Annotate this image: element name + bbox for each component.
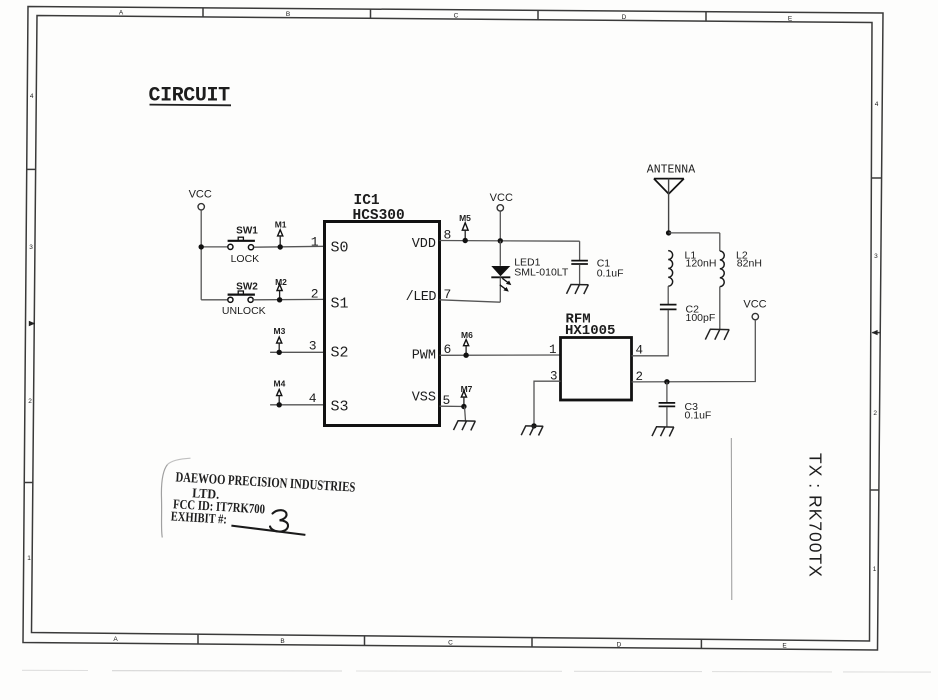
fold mark line xyxy=(730,438,733,600)
svg-text:0.1uF: 0.1uF xyxy=(685,409,712,421)
LED LED1 xyxy=(491,241,569,302)
svg-text:VCC: VCC xyxy=(743,298,766,310)
svg-text:6: 6 xyxy=(444,342,452,357)
LED emission arrows xyxy=(502,278,509,283)
svg-text:/LED: /LED xyxy=(406,290,437,305)
capacitor C3 xyxy=(659,382,712,427)
test point M5 xyxy=(459,213,471,243)
svg-text:B: B xyxy=(280,638,284,645)
wire VCC to SW2 xyxy=(201,299,227,301)
svg-text:HX1005: HX1005 xyxy=(565,323,615,339)
svg-text:C: C xyxy=(454,13,459,20)
svg-text:82nH: 82nH xyxy=(737,258,762,270)
svg-text:3: 3 xyxy=(874,253,878,260)
centering arrow left xyxy=(29,321,35,327)
svg-text:B: B xyxy=(286,11,290,18)
stamp text FCC exhibit xyxy=(170,470,355,534)
wire to pin S2 xyxy=(270,351,324,353)
svg-text:EXHIBIT #:: EXHIBIT #: xyxy=(170,508,227,526)
wire M7 to ground xyxy=(465,407,466,421)
stamp label edge xyxy=(168,458,191,464)
wire L2 to ground xyxy=(719,287,721,330)
svg-text:M3: M3 xyxy=(273,326,285,336)
svg-text:M2: M2 xyxy=(275,277,287,287)
wire PWM to RFM pin1 xyxy=(440,354,561,356)
capacitor C2 xyxy=(660,303,715,324)
ground under L2 xyxy=(705,329,729,340)
svg-text:1: 1 xyxy=(311,234,319,249)
svg-text:1: 1 xyxy=(27,555,31,562)
test point M4 xyxy=(273,379,285,408)
inductor L1 xyxy=(668,250,716,286)
svg-text:M7: M7 xyxy=(461,384,473,394)
svg-text:TX : RK700TX: TX : RK700TX xyxy=(806,453,826,578)
wire VCC to SW1 xyxy=(201,246,227,248)
svg-text:2: 2 xyxy=(28,398,32,405)
svg-text:C: C xyxy=(448,640,453,647)
svg-text:0.1uF: 0.1uF xyxy=(597,267,624,279)
svg-text:S3: S3 xyxy=(331,399,349,416)
test point M7 xyxy=(461,384,473,409)
ground under C1 xyxy=(567,285,589,295)
svg-text:S0: S0 xyxy=(331,239,349,256)
wire antenna junction to L2 xyxy=(669,232,720,234)
svg-text:4: 4 xyxy=(30,93,34,100)
wire /LED to LED xyxy=(440,300,501,302)
test point M1 xyxy=(275,220,287,250)
svg-text:A: A xyxy=(113,636,118,643)
junction pin2/C3 xyxy=(664,379,669,384)
svg-text:VSS: VSS xyxy=(412,391,436,406)
wire SW1 to pin S0 xyxy=(254,245,325,248)
capacitor C1 xyxy=(571,241,623,284)
wire C2 to RFM pin4 xyxy=(632,310,669,356)
svg-text:4: 4 xyxy=(309,391,317,406)
ground under C3 xyxy=(652,427,674,437)
wire VDD rail xyxy=(440,240,580,243)
svg-text:M1: M1 xyxy=(275,220,287,230)
svg-text:LOCK: LOCK xyxy=(231,253,260,265)
wire RFM pin3 to ground xyxy=(534,381,561,426)
junction at VCC/SW1 xyxy=(199,244,204,249)
stamp underline xyxy=(231,526,305,535)
svg-text:1: 1 xyxy=(549,343,557,357)
junction VDD/LED xyxy=(498,238,503,243)
svg-text:A: A xyxy=(119,10,124,17)
switch SW2 xyxy=(222,282,266,317)
svg-text:S2: S2 xyxy=(331,345,349,362)
wire to pin S3 xyxy=(270,404,324,406)
svg-text:M4: M4 xyxy=(273,379,285,389)
centering arrow right xyxy=(872,330,878,335)
test point M2 xyxy=(275,277,287,302)
svg-text:E: E xyxy=(788,16,793,23)
wire VCC left rail xyxy=(200,210,202,300)
svg-text:IC1: IC1 xyxy=(354,193,380,209)
svg-text:2: 2 xyxy=(311,287,319,302)
svg-text:E: E xyxy=(782,643,787,650)
svg-text:PWM: PWM xyxy=(412,349,436,364)
node ANTENNA xyxy=(647,164,695,233)
wire VSS to M7 xyxy=(440,405,467,407)
svg-text:4: 4 xyxy=(875,101,879,108)
svg-text:1: 1 xyxy=(873,566,877,573)
wire L1 to C2 xyxy=(667,286,669,304)
wire VCC right to pin2 rail xyxy=(632,320,756,382)
inductor L2 xyxy=(720,233,762,287)
wire VCC to VDD rail xyxy=(499,211,501,241)
svg-text:100pF: 100pF xyxy=(686,312,716,324)
svg-text:VDD: VDD xyxy=(412,237,436,252)
test point M6 xyxy=(461,330,473,358)
svg-text:S1: S1 xyxy=(331,296,349,313)
svg-text:UNLOCK: UNLOCK xyxy=(222,305,266,317)
test point M3 xyxy=(273,326,285,355)
svg-text:3: 3 xyxy=(309,339,317,354)
svg-text:SML-010LT: SML-010LT xyxy=(514,266,569,278)
svg-text:VCC: VCC xyxy=(490,192,513,204)
ground under VSS xyxy=(454,421,476,431)
svg-text:D: D xyxy=(622,14,627,21)
svg-text:3: 3 xyxy=(29,244,33,251)
scanner edge dashes xyxy=(22,670,931,672)
svg-text:ANTENNA: ANTENNA xyxy=(647,164,695,177)
svg-text:D: D xyxy=(617,641,622,648)
handwritten 3 xyxy=(270,510,288,531)
IC IC1 HCS300 xyxy=(325,222,440,426)
switch SW1 xyxy=(228,226,260,265)
svg-text:HCS300: HCS300 xyxy=(353,208,405,224)
svg-text:SW1: SW1 xyxy=(236,226,258,237)
wire SW2 to pin S1 xyxy=(253,298,324,300)
svg-text:M6: M6 xyxy=(461,330,473,340)
svg-text:120nH: 120nH xyxy=(686,258,717,270)
ground under RFM pin3 xyxy=(521,426,543,436)
svg-text:2: 2 xyxy=(873,410,877,417)
module RFM HX1005 xyxy=(561,338,632,401)
svg-text:VCC: VCC xyxy=(189,189,212,201)
junction antenna xyxy=(666,230,671,235)
